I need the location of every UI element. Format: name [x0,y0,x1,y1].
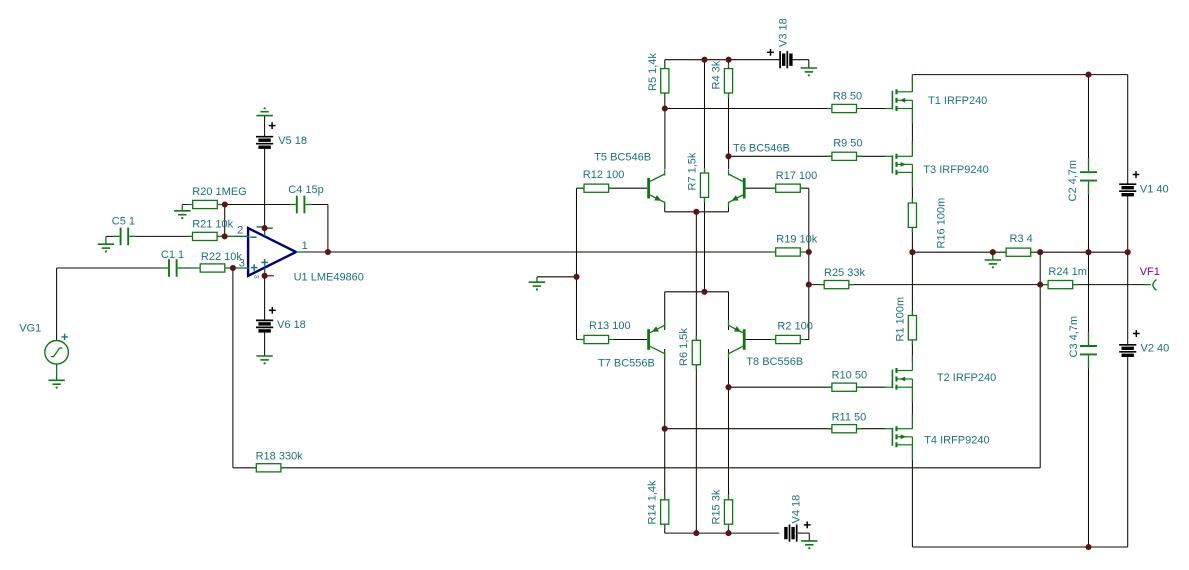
svg-text:2: 2 [237,225,243,237]
svg-text:R13 100: R13 100 [589,320,631,332]
svg-text:R17 100: R17 100 [776,170,818,182]
svg-text:R18 330k: R18 330k [256,451,304,463]
svg-text:T3 IRFP9240: T3 IRFP9240 [923,164,988,176]
svg-text:R2 100: R2 100 [777,321,812,333]
svg-text:R21 10k: R21 10k [192,218,233,230]
svg-text:R19 10k: R19 10k [776,234,817,246]
svg-text:T6 BC546B: T6 BC546B [733,142,790,154]
svg-text:R1 100m: R1 100m [895,297,907,342]
svg-text:C3 4,7m: C3 4,7m [1068,316,1080,358]
svg-text:C4 15p: C4 15p [288,184,323,196]
svg-text:T5 BC546B: T5 BC546B [594,151,651,163]
svg-text:U1 LME49860: U1 LME49860 [294,272,364,284]
svg-text:C5 1: C5 1 [112,216,135,228]
svg-text:∞: ∞ [254,272,259,281]
svg-text:R14 1,4k: R14 1,4k [647,480,659,525]
svg-text:V5 18: V5 18 [278,135,307,147]
svg-text:V3 18: V3 18 [778,18,790,47]
svg-text:R22 10k: R22 10k [201,251,242,263]
svg-text:T4 IRFP9240: T4 IRFP9240 [924,435,989,447]
svg-text:T1 IRFP240: T1 IRFP240 [928,95,987,107]
svg-text:T7 BC556B: T7 BC556B [598,358,655,370]
svg-text:R12 100: R12 100 [583,169,625,181]
svg-text:R25 33k: R25 33k [824,267,865,279]
svg-text:T2 IRFP240: T2 IRFP240 [937,372,996,384]
svg-text:T8 BC556B: T8 BC556B [746,356,803,368]
svg-text:3: 3 [239,258,245,270]
svg-text:R16 100m: R16 100m [936,198,948,249]
svg-text:V2 40: V2 40 [1141,343,1170,355]
svg-text:V6 18: V6 18 [277,319,306,331]
svg-text:V4 18: V4 18 [791,495,803,524]
svg-text:R9 50: R9 50 [833,138,862,150]
svg-text:1: 1 [302,240,308,252]
svg-text:R10 50: R10 50 [832,370,867,382]
svg-text:R6 1,5k: R6 1,5k [678,328,690,366]
svg-text:R8 50: R8 50 [833,91,862,103]
svg-text:V1 40: V1 40 [1140,183,1169,195]
svg-text:R20 1MEG: R20 1MEG [192,186,246,198]
svg-text:R3 4: R3 4 [1010,233,1033,245]
svg-text:VG1: VG1 [19,323,41,335]
svg-text:R11 50: R11 50 [832,412,867,424]
svg-text:R15 3k: R15 3k [711,489,723,524]
svg-text:VF1: VF1 [1140,266,1160,278]
svg-text:R7 1,5k: R7 1,5k [687,152,699,190]
svg-text:C2 4,7m: C2 4,7m [1067,160,1079,202]
svg-text:R5 1,4k: R5 1,4k [647,53,659,91]
svg-text:R4 3k: R4 3k [711,60,723,89]
svg-text:C1 1: C1 1 [161,249,184,261]
svg-text:R24 1m: R24 1m [1048,266,1087,278]
